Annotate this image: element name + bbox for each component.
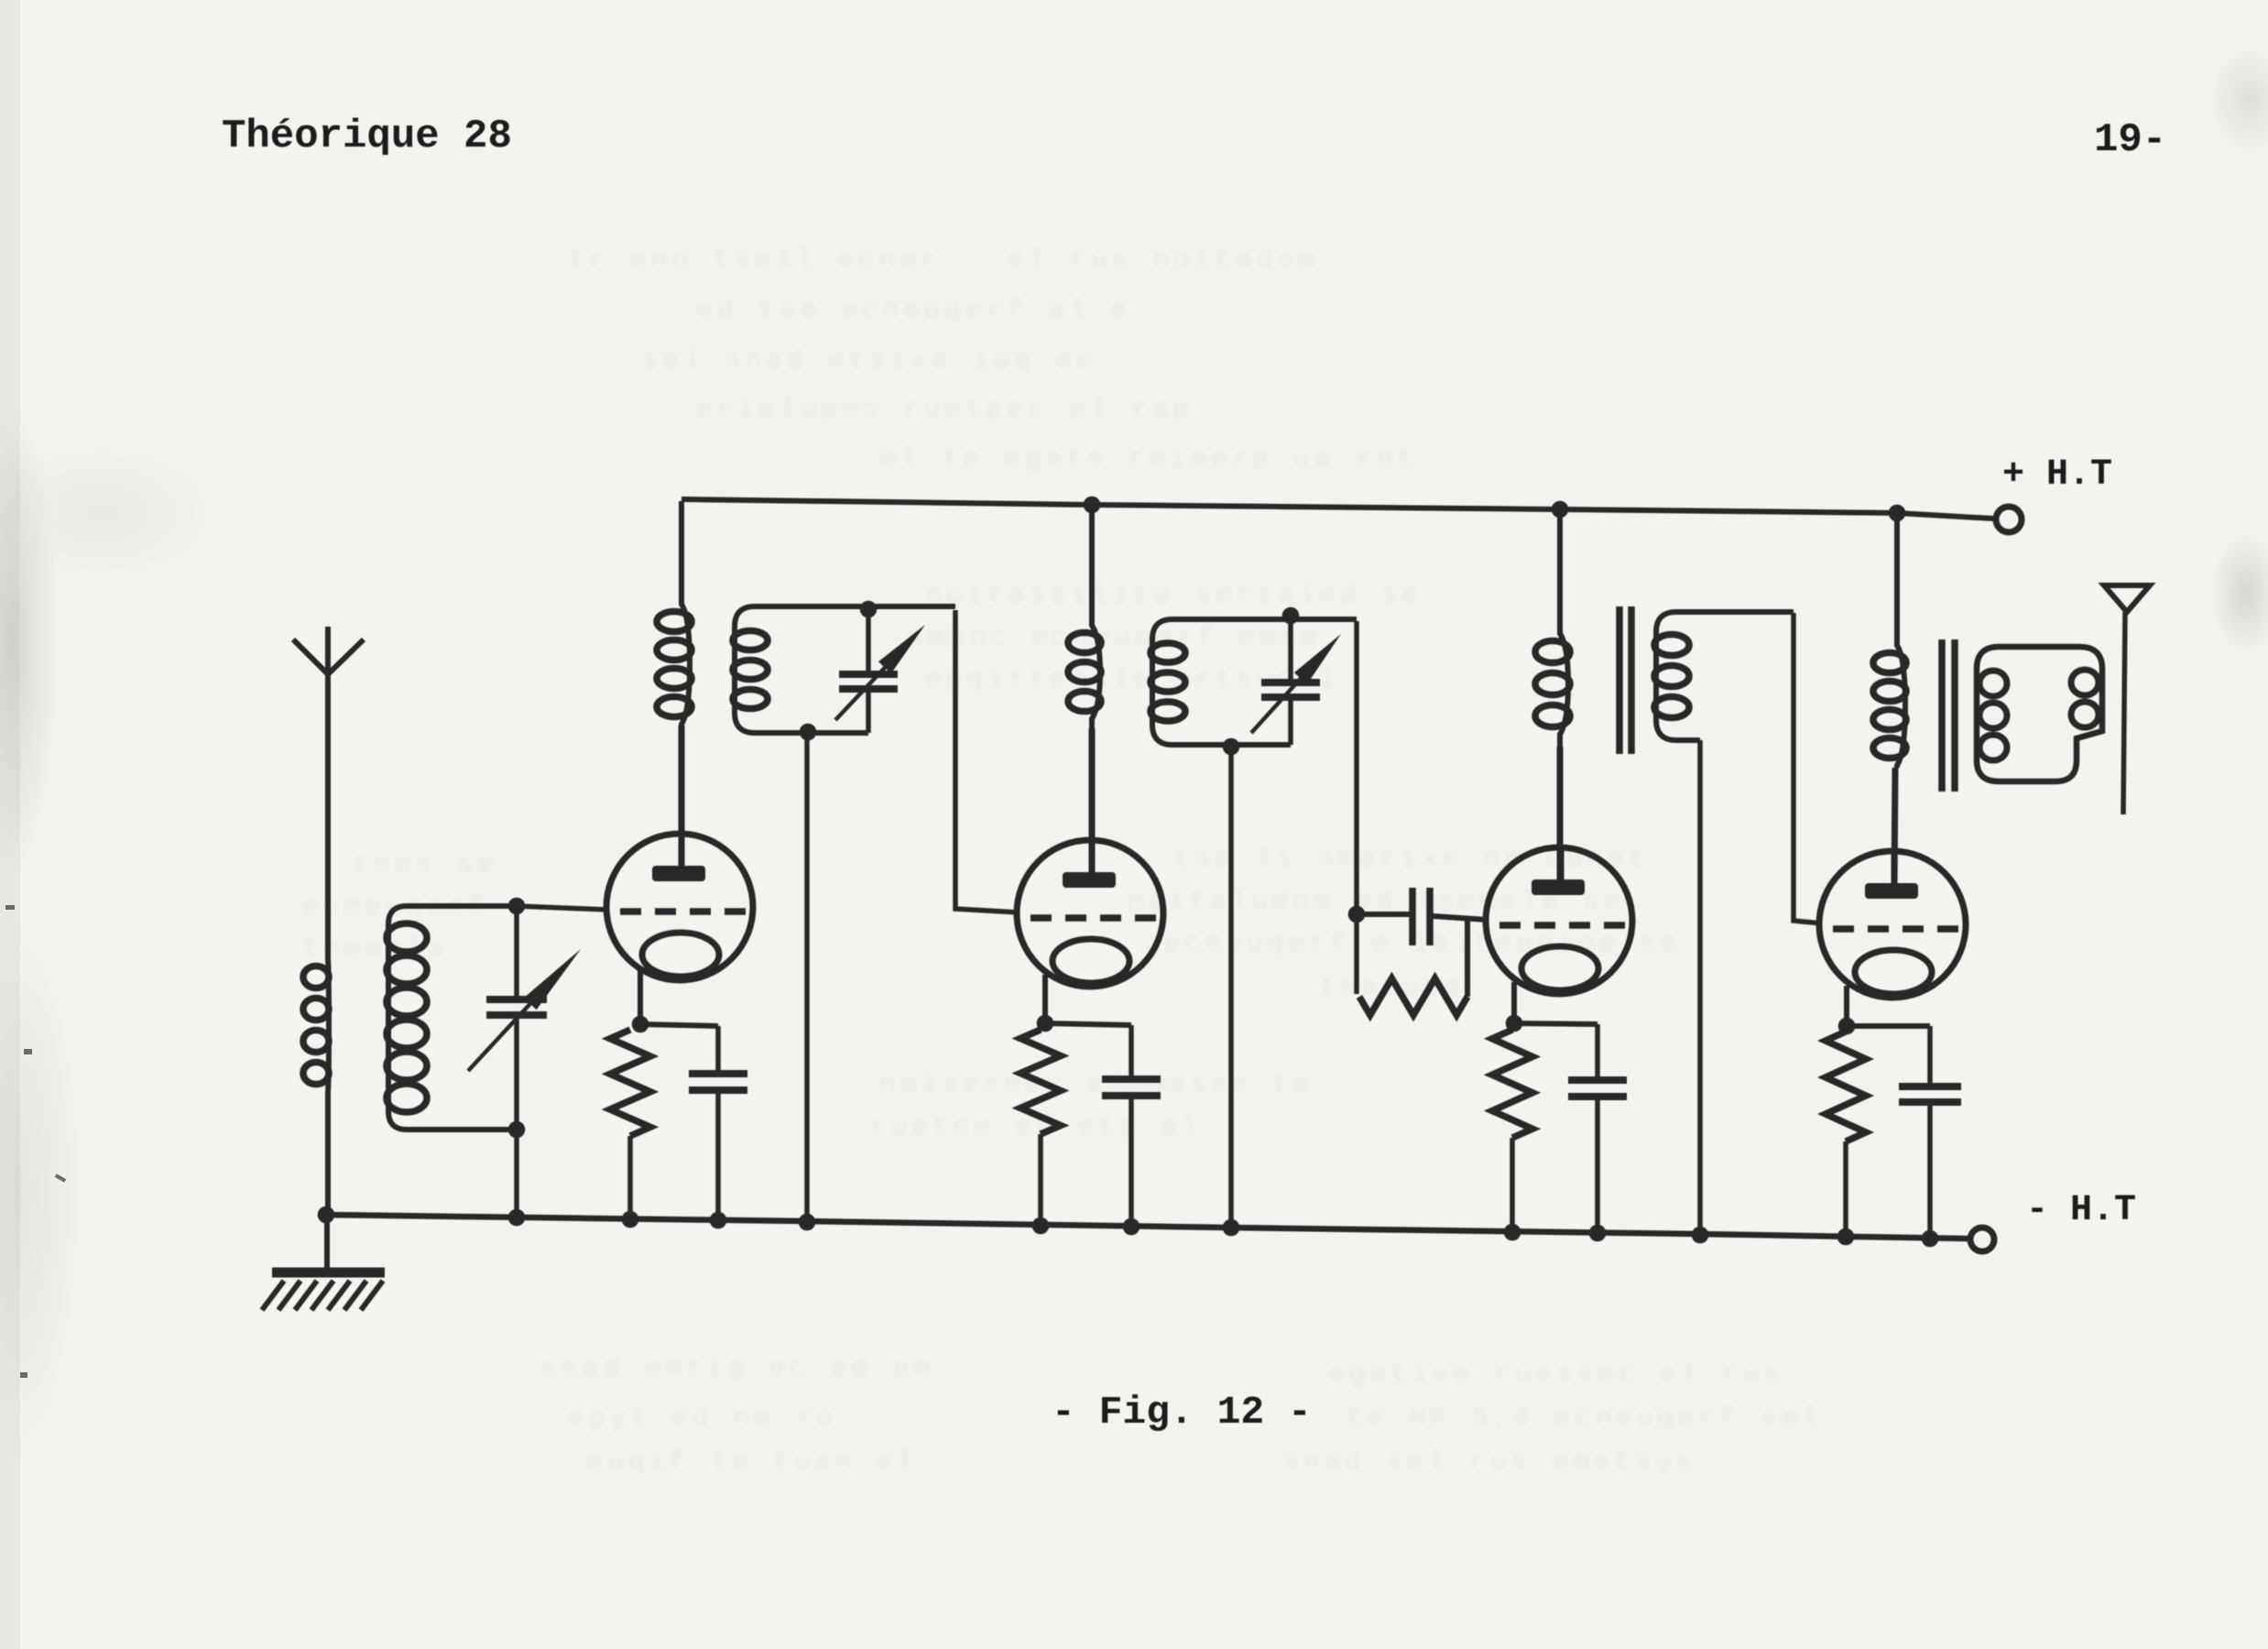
svg-text:euqif te tuan el: euqif te tuan el — [586, 1447, 918, 1479]
svg-text:te HK 5,4 ecneuqerf sel: te HK 5,4 ecneuqerf sel — [1347, 1403, 1823, 1435]
svg-text:noixennoc elbmesne te: noixennoc elbmesne te — [879, 1069, 1314, 1101]
svg-text:ecneuqerf e iaitnediop se: ecneuqerf e iaitnediop se — [1163, 928, 1681, 960]
svg-text:19-: 19- — [2094, 117, 2166, 163]
svg-text:Théorique 28: Théorique 28 — [222, 114, 512, 159]
svg-text:snad emrig ec ed em: snad emrig ec ed em — [540, 1353, 933, 1385]
svg-text:emmoc ecneuqerf emem: emmoc ecneuqerf emem — [907, 622, 1321, 654]
svg-text:noitassilitu serialed se: noitassilitu serialed se — [925, 580, 1422, 612]
svg-text:tr eno tseil ecner: tr eno tseil ecner — [568, 245, 941, 277]
svg-text:- Fig. 12 -: - Fig. 12 - — [1052, 1390, 1312, 1435]
svg-text:el rus noitadom: el rus noitadom — [1008, 245, 1318, 277]
svg-text:+ H.T: + H.T — [2002, 454, 2112, 496]
svg-text:tnos se: tnos se — [353, 849, 497, 881]
svg-text:erialupoc ruetpec el rap: erialupoc ruetpec el rap — [696, 394, 1193, 426]
svg-text:epyt ed ne ro: epyt ed ne ro — [568, 1403, 837, 1435]
svg-text:- H.T: - H.T — [2026, 1190, 2136, 1231]
svg-text:egative ruessec el rus: egative ruessec el rus — [1328, 1359, 1783, 1391]
svg-text:sel snad etsixe iuq ec: sel snad etsixe iuq ec — [641, 345, 1096, 377]
svg-text:snad sel rus emetsys: snad sel rus emetsys — [1282, 1447, 1696, 1479]
svg-text:ed tse ecneuqerf al e: ed tse ecneuqerf al e — [696, 295, 1131, 327]
svg-text:el te egats reimerp ua rot: el te egats reimerp ua rot — [879, 443, 1418, 475]
